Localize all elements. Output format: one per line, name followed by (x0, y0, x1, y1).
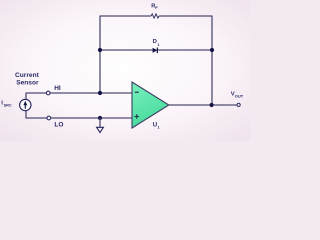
node junction Rf/D1 right (210, 48, 214, 52)
wire feedback top horizontal right of Rf (159, 15, 212, 17)
wire source bottom lead (25, 111, 27, 119)
ground stem (99, 118, 101, 127)
node junction feedback/HI (98, 91, 102, 95)
svg-text:Current: Current (15, 72, 40, 79)
wire feedback top horizontal left of Rf (100, 15, 151, 17)
wire diode branch right of D1 (157, 49, 212, 51)
terminal LO (47, 116, 51, 120)
ground (97, 127, 104, 132)
terminal VOUT (237, 103, 240, 106)
wire diode branch left of D1 (100, 49, 153, 51)
wire feedback left vertical (99, 16, 101, 94)
svg-text:HI: HI (54, 85, 61, 92)
svg-text:OUT: OUT (235, 93, 244, 98)
op-amp U1 (132, 82, 169, 128)
wire LO to non-inverting input (26, 117, 132, 119)
wire op-amp output (169, 104, 239, 106)
svg-text:LO: LO (54, 122, 63, 129)
svg-text:Sensor: Sensor (16, 79, 39, 86)
current source ISRC (20, 99, 31, 110)
resistor RF zigzag (151, 14, 159, 18)
wire HI to inverting input (26, 92, 132, 94)
svg-text:SRC: SRC (4, 104, 12, 108)
svg-text:D: D (153, 39, 157, 45)
wire feedback right vertical (211, 16, 213, 106)
diode D1 (153, 48, 158, 54)
node junction Rf/D1 left (98, 48, 102, 52)
terminal HI (46, 91, 50, 95)
node junction output/feedback (210, 103, 214, 107)
wire source top lead (25, 93, 27, 100)
node junction ground/LO (98, 116, 102, 120)
